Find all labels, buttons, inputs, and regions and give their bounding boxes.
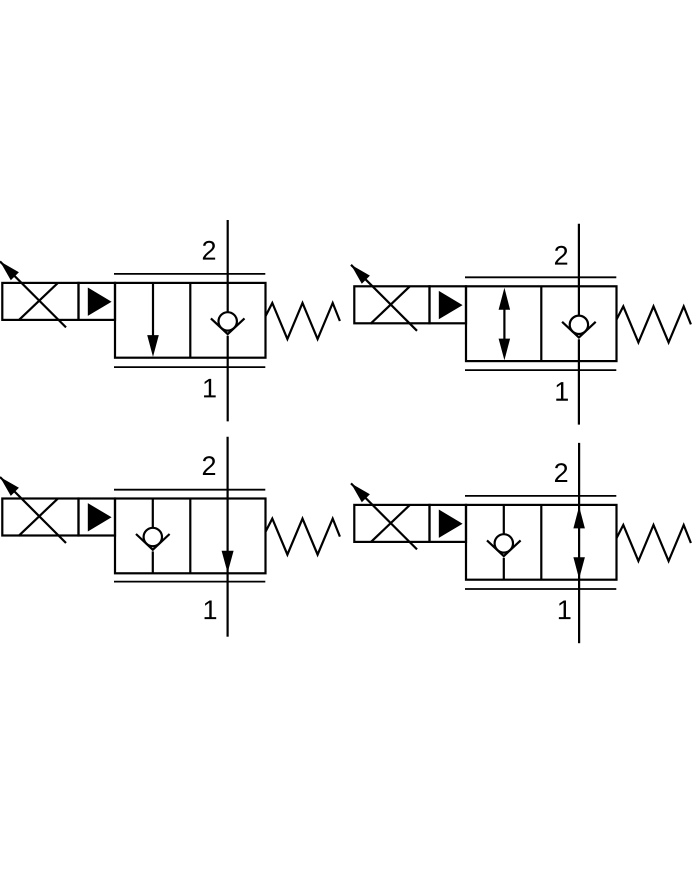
valve body envelope, valve V3 <box>115 499 266 574</box>
solenoid adjustment arrow, valve V1 <box>0 261 66 327</box>
flow arrow down (left position), valve V1 <box>147 284 159 357</box>
check valve (right position), valve V2 <box>562 316 596 338</box>
solenoid pilot triangle box, valve V1 <box>79 283 116 320</box>
bottom rail line, valve V2 <box>465 369 616 371</box>
double-headed flow arrow on port line (right position), valve V4 <box>573 506 585 579</box>
top rail line, valve V4 <box>465 495 616 497</box>
bottom rail line, valve V4 <box>465 588 616 590</box>
port 1 line (node 1), valve V4 <box>578 580 580 644</box>
valve body envelope, valve V1 <box>115 283 266 358</box>
port label 2, valve V4 <box>555 463 567 482</box>
check valve (left position), valve V4 <box>487 506 521 579</box>
return spring, valve V1 <box>265 303 340 339</box>
port 2 line (node 2), valve V3 <box>227 437 229 574</box>
return spring, valve V2 <box>616 306 691 342</box>
port 2 line (node 2), valve V1 <box>227 220 229 312</box>
solenoid pilot triangle box, valve V3 <box>79 499 116 536</box>
solenoid adjustment arrow, valve V2 <box>351 265 417 331</box>
port 2 line (node 2), valve V4 <box>578 443 580 580</box>
top rail line, valve V1 <box>114 273 265 275</box>
valve body envelope, valve V4 <box>466 505 617 580</box>
check valve (right position), valve V1 <box>211 312 245 334</box>
solenoid adjustment arrow, valve V4 <box>351 483 417 549</box>
port 1 line (node 1), valve V3 <box>227 573 229 636</box>
return spring, valve V3 <box>265 519 340 555</box>
bottom rail line, valve V1 <box>114 366 265 368</box>
solenoid pilot triangle box, valve V4 <box>430 505 467 542</box>
port label 1, valve V2 <box>556 382 568 401</box>
proportional solenoid coil box, valve V4 <box>354 505 429 543</box>
proportional solenoid coil box, valve V3 <box>2 498 78 536</box>
solenoid pilot triangle box, valve V2 <box>430 286 467 323</box>
proportional solenoid coil box, valve V2 <box>354 286 429 324</box>
double-headed flow arrow (left position), valve V2 <box>499 288 511 361</box>
port 2 line (node 2), valve V2 <box>578 224 580 316</box>
return spring, valve V4 <box>616 525 691 561</box>
port label 2, valve V2 <box>555 246 567 265</box>
proportional solenoid coil box, valve V1 <box>2 283 78 321</box>
flow arrow down on port line (right position), valve V3 <box>222 551 234 573</box>
valve body envelope, valve V2 <box>466 286 617 361</box>
port 1 line (node 1), valve V2 <box>578 339 580 424</box>
port 1 line (node 1), valve V1 <box>227 336 229 422</box>
solenoid adjustment arrow, valve V3 <box>0 477 66 543</box>
port label 1, valve V3 <box>205 601 217 620</box>
top rail line, valve V3 <box>114 489 265 491</box>
port label 1, valve V4 <box>559 601 571 620</box>
port label 2, valve V3 <box>203 456 215 475</box>
top rail line, valve V2 <box>465 276 616 278</box>
bottom rail line, valve V3 <box>114 581 265 583</box>
check valve (left position), valve V3 <box>136 500 170 573</box>
port label 2, valve V1 <box>203 241 215 260</box>
port label 1, valve V1 <box>204 379 216 398</box>
